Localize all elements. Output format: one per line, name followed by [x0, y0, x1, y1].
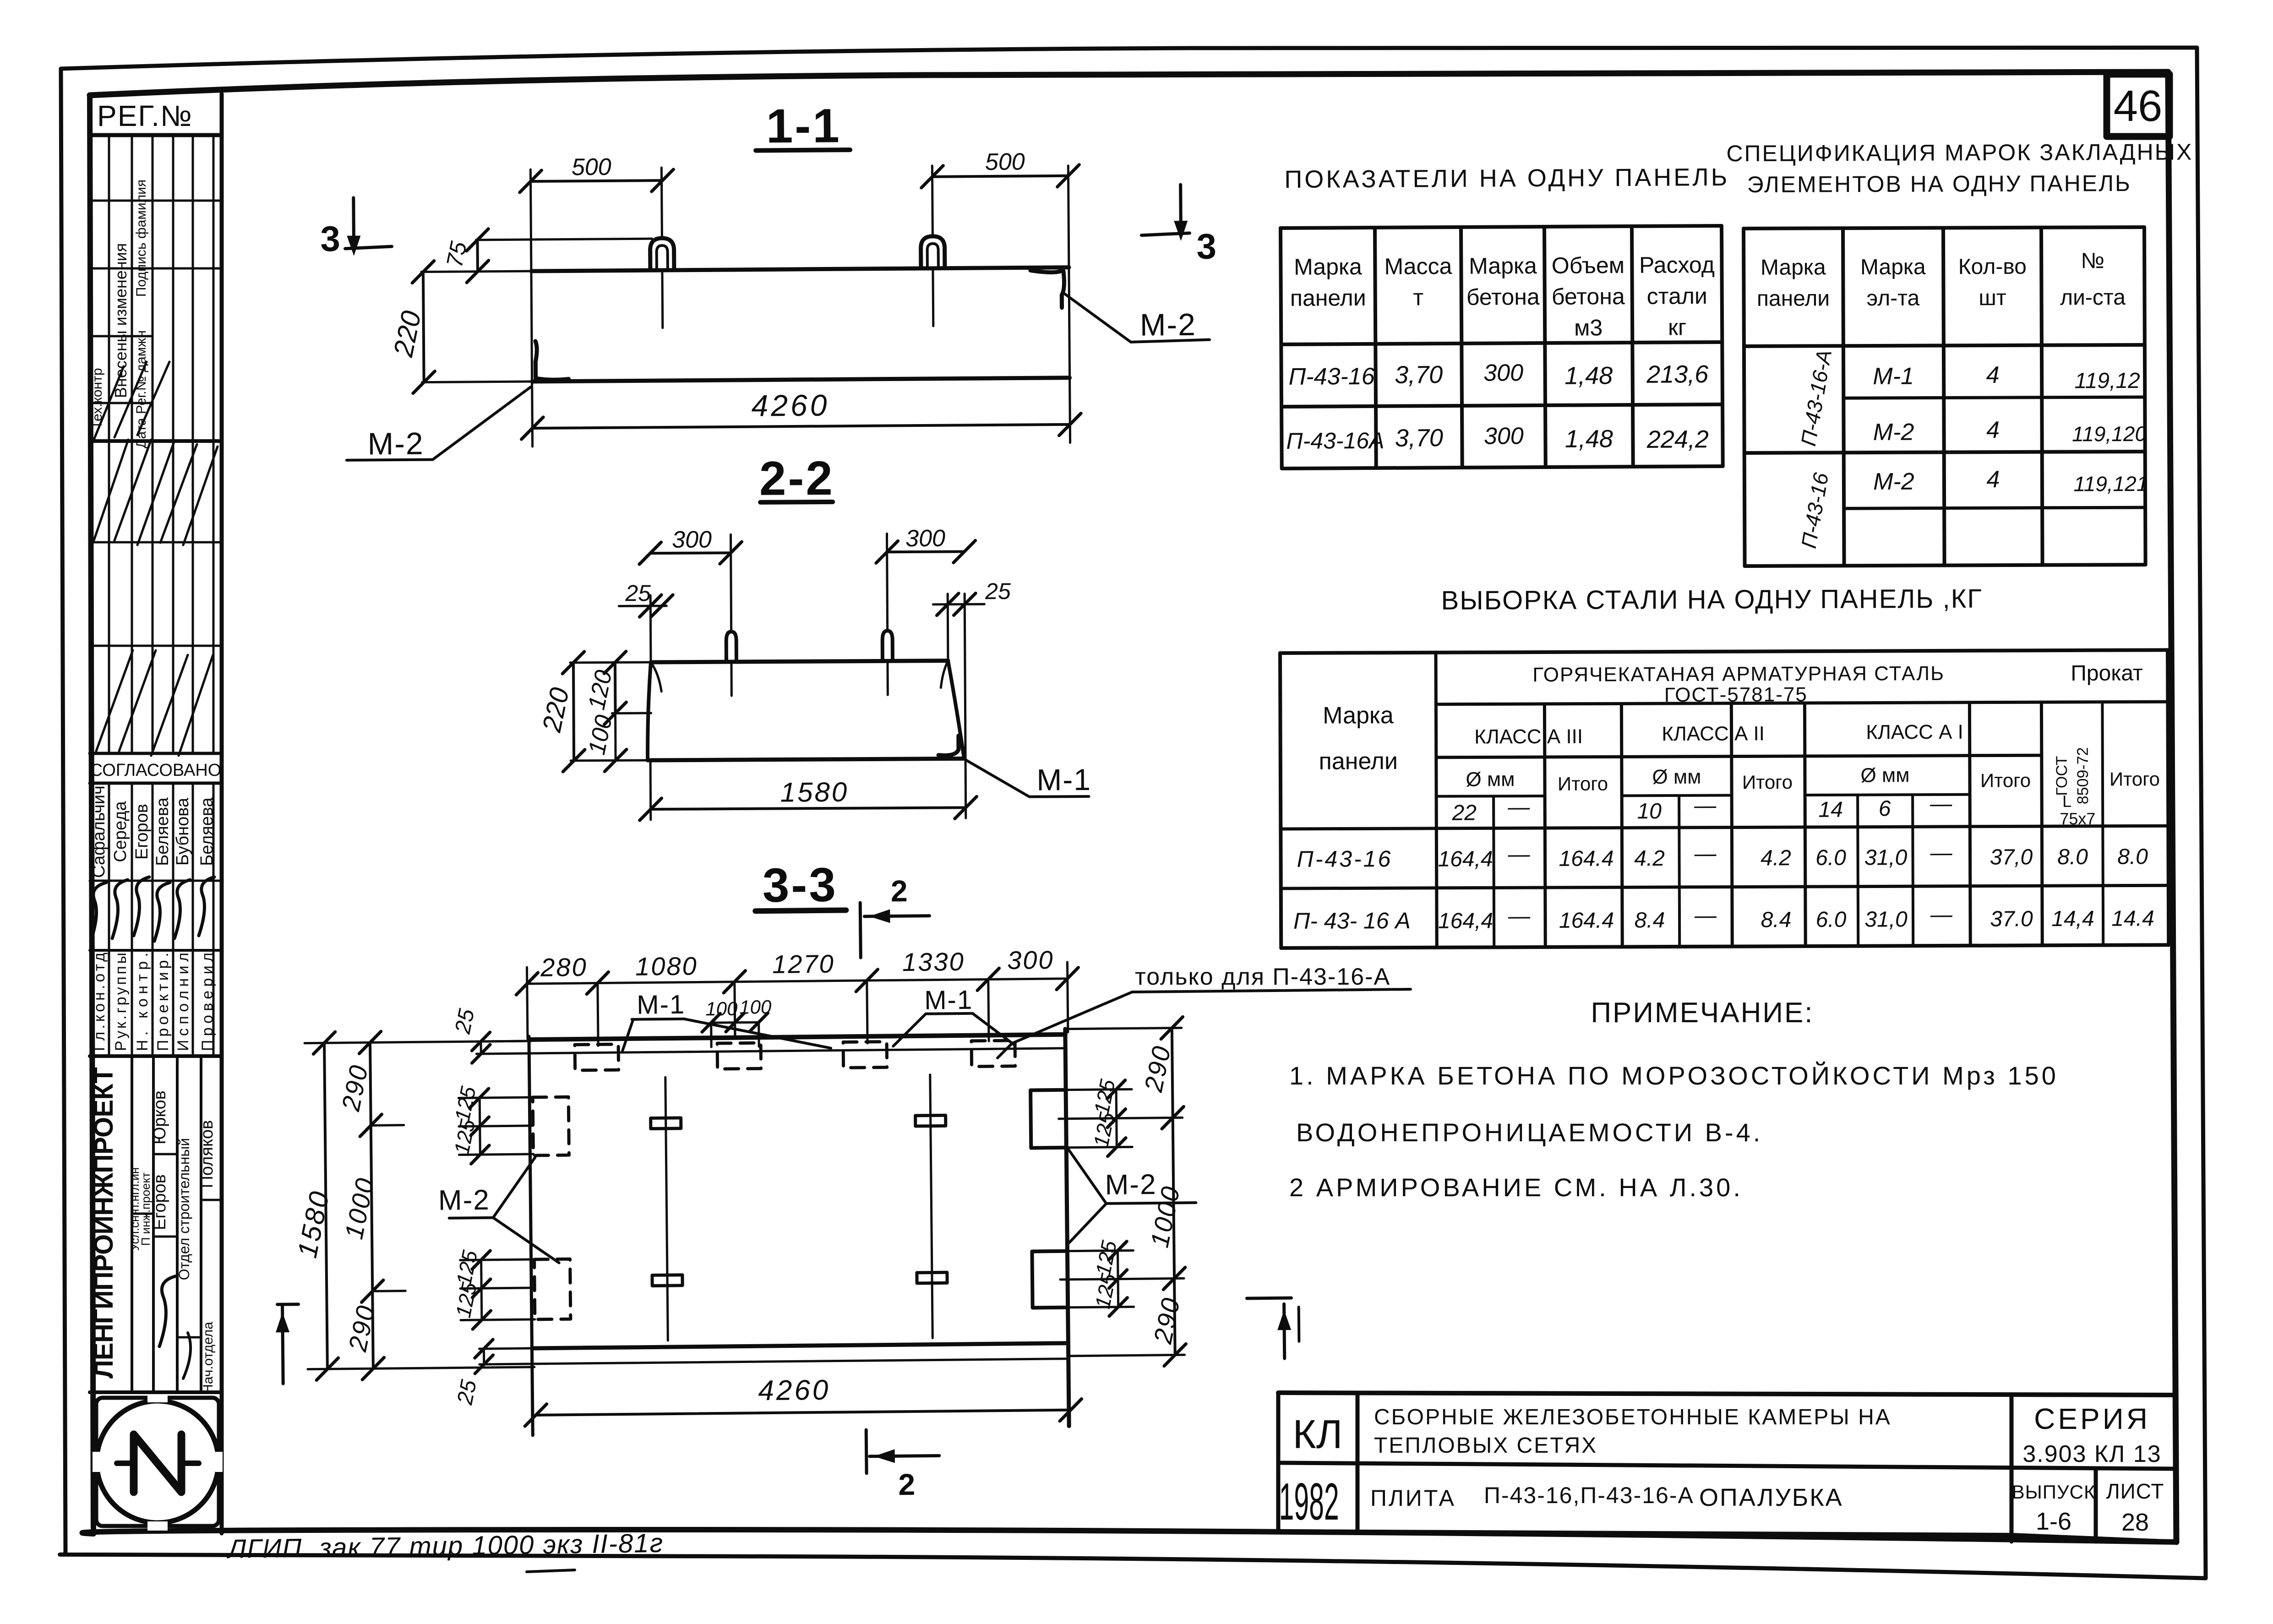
svg-text:4: 4 — [1986, 417, 2000, 443]
dim 300 right — [887, 550, 965, 553]
svg-text:Ø мм: Ø мм — [1466, 768, 1515, 790]
svg-text:М-2: М-2 — [1105, 1169, 1156, 1201]
svg-text:1080: 1080 — [635, 951, 698, 981]
M-1 dashed plates top — [575, 1044, 619, 1070]
extension line left — [530, 169, 532, 447]
svg-text:3.903 КЛ 13: 3.903 КЛ 13 — [2022, 1441, 2161, 1467]
svg-text:панели: панели — [1319, 748, 1398, 775]
svg-text:8.4: 8.4 — [1761, 908, 1792, 932]
embedded angle M-2 bottom left — [535, 341, 569, 380]
dim 300 left — [650, 551, 731, 555]
svg-text:М-2: М-2 — [1140, 307, 1197, 343]
svg-text:3,70: 3,70 — [1395, 361, 1443, 389]
svg-text:1270: 1270 — [772, 949, 835, 979]
section mark 1 right — [1247, 1297, 1291, 1300]
loop a centerline — [731, 534, 731, 630]
svg-text:8509-72: 8509-72 — [2074, 747, 2092, 804]
svg-text:100: 100 — [739, 996, 772, 1018]
svg-text:ЛИСТ: ЛИСТ — [2106, 1479, 2164, 1503]
reg number box — [90, 133, 222, 137]
svg-text:Егоров: Егоров — [132, 804, 152, 860]
svg-text:—: — — [1930, 841, 1952, 865]
svg-text:4: 4 — [1986, 362, 2000, 388]
dim 25 bottom left — [479, 1348, 532, 1349]
svg-text:—: — — [1930, 903, 1953, 927]
svg-text:500: 500 — [572, 154, 611, 181]
svg-text:8.0: 8.0 — [2057, 845, 2088, 869]
svg-text:1-1: 1-1 — [766, 99, 841, 153]
strike slashes — [94, 440, 128, 540]
svg-text:Кол-во: Кол-во — [1958, 255, 2027, 279]
dims 100 100 — [711, 1021, 759, 1024]
svg-text:3: 3 — [1196, 226, 1216, 267]
loop a — [726, 632, 736, 662]
svg-text:Марка: Марка — [1323, 702, 1394, 729]
notes block — [1289, 997, 2059, 1202]
svg-text:ГОСТ-5781-75: ГОСТ-5781-75 — [1664, 683, 1808, 706]
extension verticals — [649, 595, 652, 662]
svg-text:Объем: Объем — [1552, 252, 1625, 278]
svg-text:75: 75 — [442, 239, 472, 269]
plan outline — [529, 1035, 1065, 1040]
svg-text:25: 25 — [452, 1378, 481, 1407]
svg-text:Подпись фамилия: Подпись фамилия — [134, 180, 149, 297]
dims 125 right bottom — [1117, 1251, 1118, 1307]
svg-text:ГОСТ: ГОСТ — [2053, 756, 2071, 796]
svg-text:25: 25 — [625, 580, 651, 606]
section mark 2 bottom — [865, 1430, 868, 1473]
dims 120 100 — [612, 712, 651, 714]
svg-text:Нач.отдела: Нач.отдела — [201, 1322, 216, 1394]
svg-text:М-1: М-1 — [1036, 763, 1091, 797]
rebar mark left — [665, 1077, 668, 1341]
svg-text:4.2: 4.2 — [1761, 846, 1791, 870]
svg-text:4: 4 — [1986, 466, 2000, 493]
svg-text:т: т — [1413, 284, 1423, 310]
print note handwriting — [226, 1528, 664, 1572]
svg-text:6.0: 6.0 — [1815, 846, 1846, 870]
svg-text:Отдел строительный: Отдел строительный — [176, 1138, 192, 1281]
svg-text:Поляков: Поляков — [197, 1120, 217, 1188]
svg-text:П-43-16: П-43-16 — [1297, 846, 1392, 872]
svg-text:Беляева: Беляева — [153, 797, 172, 866]
svg-text:—: — — [1694, 904, 1717, 928]
svg-text:ЭЛЕМЕНТОВ НА ОДНУ ПАНЕЛЬ: ЭЛЕМЕНТОВ НА ОДНУ ПАНЕЛЬ — [1747, 170, 2131, 197]
dim 500 right — [932, 176, 1068, 177]
svg-text:22: 22 — [1451, 801, 1477, 825]
change-table grid — [108, 135, 110, 753]
section 3-3 plan view — [271, 854, 1300, 1507]
svg-text:1,48: 1,48 — [1565, 425, 1613, 453]
svg-text:ЛЕНГИПРОИНЖПРОЕКТ: ЛЕНГИПРОИНЖПРОЕКТ — [89, 1067, 119, 1379]
svg-text:1982: 1982 — [1279, 1473, 1339, 1531]
svg-text:ОПАЛУБКА: ОПАЛУБКА — [1699, 1484, 1843, 1511]
svg-text:СОГЛАСОВАНО: СОГЛАСОВАНО — [90, 761, 222, 780]
dim 4260 — [532, 425, 1070, 428]
loop b — [883, 631, 893, 661]
svg-text:Бубнова: Бубнова — [173, 797, 192, 866]
svg-text:300: 300 — [1007, 945, 1054, 975]
page number box 46 — [2107, 74, 2169, 136]
dim 75 — [476, 239, 652, 240]
dim 1580 left — [305, 1041, 531, 1043]
svg-text:14,4: 14,4 — [2051, 907, 2094, 931]
svg-text:213,6: 213,6 — [1646, 360, 1709, 388]
svg-text:2: 2 — [891, 874, 908, 908]
svg-text:Марка: Марка — [1469, 253, 1537, 279]
svg-text:Ø мм: Ø мм — [1860, 764, 1909, 786]
table indicators per panel — [1280, 163, 1731, 469]
svg-text:Егоров: Егоров — [150, 1174, 169, 1230]
svg-text:100: 100 — [705, 998, 738, 1020]
svg-text:119,120: 119,120 — [2072, 422, 2147, 446]
svg-text:М-1: М-1 — [637, 990, 686, 1020]
svg-text:Середа: Середа — [111, 801, 130, 862]
note tolko dlya P-43-16-A — [998, 964, 1411, 1058]
svg-text:4260: 4260 — [758, 1374, 831, 1407]
svg-text:П- 43- 16 А: П- 43- 16 А — [1293, 908, 1411, 934]
svg-text:8.4: 8.4 — [1635, 908, 1665, 932]
svg-text:КЛ: КЛ — [1292, 1411, 1342, 1457]
svg-text:кг: кг — [1668, 314, 1686, 340]
svg-text:М-2: М-2 — [367, 426, 424, 462]
svg-text:—: — — [1507, 795, 1530, 819]
svg-text:ПЛИТА: ПЛИТА — [1370, 1485, 1456, 1511]
svg-text:300: 300 — [1483, 360, 1523, 386]
svg-text:П-43-16: П-43-16 — [1289, 363, 1375, 390]
svg-text:Итого: Итого — [1980, 769, 2031, 791]
svg-text:бетона: бетона — [1552, 283, 1625, 310]
svg-text:—: — — [1694, 794, 1717, 818]
svg-text:6.0: 6.0 — [1816, 908, 1847, 932]
svg-text:37,0: 37,0 — [1990, 845, 2033, 869]
svg-text:3: 3 — [320, 218, 340, 259]
institute logo — [93, 1394, 223, 1531]
svg-text:75x7: 75x7 — [2060, 809, 2095, 828]
svg-text:Итого: Итого — [2109, 768, 2160, 790]
svg-text:31,0: 31,0 — [1864, 845, 1908, 870]
svg-text:ТЕПЛОВЫХ СЕТЯХ: ТЕПЛОВЫХ СЕТЯХ — [1374, 1433, 1597, 1458]
rebar mark right — [930, 1075, 933, 1338]
svg-text:2-2: 2-2 — [759, 452, 834, 506]
svg-text:шт: шт — [1979, 286, 2006, 310]
svg-text:СЕРИЯ: СЕРИЯ — [2034, 1402, 2150, 1435]
panel outline 2-2 — [651, 661, 948, 662]
svg-text:1580: 1580 — [780, 777, 849, 808]
loop 1 centerline — [661, 168, 662, 236]
top dimension chain — [527, 967, 527, 1039]
svg-text:Расход: Расход — [1639, 252, 1715, 278]
dim 25 right — [933, 603, 984, 606]
svg-text:280: 280 — [540, 953, 588, 982]
section mark 3 left — [352, 198, 355, 249]
loop b centerline — [887, 534, 888, 629]
svg-text:М-2: М-2 — [1873, 419, 1914, 446]
svg-text:№: № — [2081, 249, 2104, 273]
lip curves — [651, 662, 661, 692]
svg-text:Марка: Марка — [1860, 255, 1926, 279]
svg-text:ли-ста: ли-ста — [2060, 285, 2126, 310]
svg-text:46: 46 — [2114, 82, 2163, 131]
svg-text:М-2: М-2 — [438, 1184, 490, 1216]
svg-text:КЛАСС А II: КЛАСС А II — [1662, 722, 1765, 745]
sidebar stamp column — [89, 94, 222, 1533]
svg-text:164.4: 164.4 — [1559, 846, 1613, 871]
svg-text:Рук.группы: Рук.группы — [112, 953, 130, 1051]
svg-text:СБОРНЫЕ ЖЕЛЕЗОБЕТОННЫЕ КАМЕР: СБОРНЫЕ ЖЕЛЕЗОБЕТОННЫЕ КАМЕРЫ НА — [1374, 1405, 1891, 1429]
svg-text:3-3: 3-3 — [762, 858, 838, 913]
M-2 dashed plates left — [533, 1097, 569, 1155]
section mark 3 right — [1179, 185, 1183, 234]
svg-text:164,4: 164,4 — [1438, 847, 1493, 871]
svg-text:—: — — [1930, 792, 1952, 816]
svg-text:Беляева: Беляева — [197, 797, 217, 866]
svg-text:10: 10 — [1637, 799, 1662, 823]
svg-text:164.4: 164.4 — [1559, 908, 1614, 932]
svg-text:Сафальчич: Сафальчич — [89, 785, 109, 878]
svg-text:1,48: 1,48 — [1564, 362, 1613, 390]
svg-text:м3: м3 — [1574, 315, 1603, 340]
svg-text:25: 25 — [985, 578, 1011, 604]
lifting loop 1 — [650, 238, 674, 270]
svg-text:М-2: М-2 — [1873, 469, 1914, 495]
dim 4260 plan — [536, 1410, 1071, 1415]
svg-text:8.0: 8.0 — [2117, 845, 2148, 869]
svg-text:Марка: Марка — [1294, 254, 1362, 280]
svg-text:—: — — [1694, 842, 1717, 866]
svg-text:панели: панели — [1290, 285, 1366, 311]
M-2 solid plates right — [1030, 1090, 1066, 1148]
svg-text:300: 300 — [1484, 423, 1524, 449]
chain 290 1000 290 left — [370, 1042, 373, 1368]
svg-text:СПЕЦИФИКАЦИЯ МАРОК ЗАКЛАДНЫХ: СПЕЦИФИКАЦИЯ МАРОК ЗАКЛАДНЫХ — [1726, 139, 2193, 167]
svg-text:КЛАСС А III: КЛАСС А III — [1474, 725, 1583, 748]
svg-text:224,2: 224,2 — [1646, 425, 1709, 453]
svg-text:Марка: Марка — [1761, 255, 1826, 279]
svg-text:КЛАСС А I: КЛАСС А I — [1866, 721, 1963, 744]
svg-text:Итого: Итого — [1558, 773, 1608, 795]
svg-text:31,0: 31,0 — [1864, 907, 1908, 932]
svg-text:Ø мм: Ø мм — [1652, 766, 1701, 788]
svg-text:1-6: 1-6 — [2036, 1508, 2071, 1535]
loop 2 centerline — [932, 166, 932, 234]
svg-text:панели: панели — [1757, 286, 1830, 311]
svg-text:бетона: бетона — [1466, 284, 1540, 310]
svg-text:М-1: М-1 — [924, 985, 973, 1015]
svg-text:Итого: Итого — [1742, 771, 1793, 793]
dims 125 right top — [1116, 1090, 1117, 1147]
org section grid — [131, 1056, 133, 1392]
right chain 290 1000 290 — [1067, 1028, 1182, 1029]
svg-text:стали: стали — [1647, 283, 1708, 309]
svg-text:ВЫБОРКА СТАЛИ НА ОДНУ ПАН: ВЫБОРКА СТАЛИ НА ОДНУ ПАНЕЛЬ ,КГ — [1441, 584, 1982, 616]
section 1-1 view — [319, 97, 1218, 462]
dim 220 — [421, 271, 533, 272]
steel table grid — [1280, 650, 2168, 653]
title block — [1278, 1393, 2176, 1542]
svg-text:Прокат: Прокат — [2071, 661, 2143, 686]
svg-text:25: 25 — [451, 1007, 480, 1036]
svg-text:37.0: 37.0 — [1990, 907, 2033, 931]
table embedded elements spec — [1726, 139, 2194, 567]
svg-text:14: 14 — [1818, 798, 1843, 822]
svg-text:14.4: 14.4 — [2111, 906, 2154, 931]
extension line right — [1068, 166, 1070, 443]
svg-text:Юрков: Юрков — [150, 1090, 169, 1144]
section 2-2 view — [535, 450, 1092, 821]
svg-text:—: — — [1507, 842, 1530, 866]
svg-text:ПОКАЗАТЕЛИ НА ОДНУ ПАНЕЛЬ: ПОКАЗАТЕЛИ НА ОДНУ ПАНЕЛЬ — [1284, 163, 1729, 193]
svg-text:РЕГ.№: РЕГ.№ — [97, 99, 193, 132]
dims 125 left top — [480, 1098, 480, 1155]
dim 25 left — [619, 605, 666, 607]
svg-text:4260: 4260 — [751, 388, 829, 422]
svg-text:119,12: 119,12 — [2074, 369, 2140, 393]
section mark 2 top — [860, 903, 861, 958]
svg-text:164,4: 164,4 — [1438, 909, 1493, 933]
svg-text:6: 6 — [1879, 796, 1891, 821]
svg-text:300: 300 — [905, 525, 945, 552]
svg-text:П-43-16А: П-43-16А — [1286, 428, 1384, 454]
svg-text:П-43-16,П-43-16-А: П-43-16,П-43-16-А — [1484, 1482, 1694, 1508]
svg-text:28: 28 — [2121, 1509, 2149, 1536]
signatures — [91, 883, 106, 941]
svg-text:—: — — [1508, 904, 1531, 928]
dim 500 left — [531, 180, 663, 181]
panel outline 1-1 — [531, 267, 1069, 271]
svg-text:ПРИМЕЧАНИЕ:: ПРИМЕЧАНИЕ: — [1591, 997, 1814, 1029]
svg-text:4.2: 4.2 — [1634, 846, 1665, 871]
svg-text:ГОРЯЧЕКАТАНАЯ АРМАТУРНАЯ С: ГОРЯЧЕКАТАНАЯ АРМАТУРНАЯ СТАЛЬ — [1532, 662, 1945, 686]
svg-text:119,121: 119,121 — [2073, 472, 2148, 496]
svg-text:Масса: Масса — [1384, 253, 1452, 279]
lifting loop 2 — [921, 236, 944, 268]
dims 125 left bottom — [481, 1260, 482, 1320]
dim 1580 — [649, 762, 652, 820]
svg-text:эл-та: эл-та — [1867, 286, 1920, 311]
svg-text:только для П-43-16-А: только для П-43-16-А — [1135, 964, 1390, 990]
dim 220 2-2 — [570, 661, 651, 664]
steel selection table — [1280, 583, 2169, 948]
svg-text:М-1: М-1 — [1873, 363, 1914, 390]
svg-text:300: 300 — [672, 526, 712, 553]
svg-text:L: L — [2062, 792, 2071, 811]
embedded angle M-1 bottom right — [938, 736, 959, 755]
svg-text:1. МАРКА БЕТОНА ПО МОРОЗОС: 1. МАРКА БЕТОНА ПО МОРОЗОСТОЙКОСТИ Мрз 1… — [1289, 1061, 2059, 1090]
section mark 1 left — [278, 1302, 299, 1306]
svg-text:2: 2 — [898, 1467, 915, 1501]
embedded angle M-2 top right — [1030, 270, 1064, 308]
svg-text:3,70: 3,70 — [1395, 424, 1443, 452]
dim 25 top left — [476, 1041, 529, 1041]
svg-text:ВОДОНЕПРОНИЦАЕМОСТИ В-4.: ВОДОНЕПРОНИЦАЕМОСТИ В-4. — [1296, 1118, 1763, 1147]
svg-text:ЛГИП. зак 77 тир 1000 экз I: ЛГИП. зак 77 тир 1000 экз II-81г — [226, 1528, 664, 1564]
svg-text:ВЫПУСК: ВЫПУСК — [2012, 1481, 2096, 1503]
svg-text:2 АРМИРОВАНИЕ СМ. НА Л.30: 2 АРМИРОВАНИЕ СМ. НА Л.30. — [1289, 1173, 1743, 1202]
svg-text:500: 500 — [985, 148, 1025, 175]
svg-text:1330: 1330 — [902, 947, 965, 976]
